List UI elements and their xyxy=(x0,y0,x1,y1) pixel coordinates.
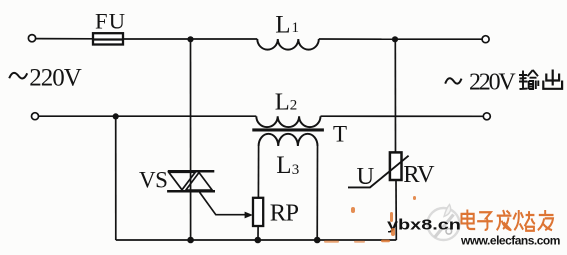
watermark CJK zi xyxy=(477,212,493,230)
wire RV branch vertical upper xyxy=(394,39,396,152)
svg-text:L: L xyxy=(275,88,290,115)
label CJK chu (output char 2) xyxy=(543,70,562,89)
svg-text:3: 3 xyxy=(292,162,300,178)
svg-text:L: L xyxy=(276,152,291,179)
triac VS top bar xyxy=(168,170,215,173)
node junction top-right (RV branch) xyxy=(392,36,398,42)
transformer core bar T xyxy=(252,128,324,131)
triac VS left triangle xyxy=(169,172,195,190)
label L1 xyxy=(275,11,299,38)
svg-text:RP: RP xyxy=(270,200,299,227)
wire RP to bottom rail xyxy=(257,226,259,240)
svg-text:www.elecfans.com: www.elecfans.com xyxy=(460,233,560,247)
wire triac branch vertical xyxy=(190,39,192,240)
triac VS bottom bar xyxy=(167,190,215,193)
inductor L3 (secondary) xyxy=(259,134,318,146)
node junction top-left (triac branch) xyxy=(187,36,193,42)
svg-text:T: T xyxy=(333,122,347,147)
svg-text:ybx8.cn: ybx8.cn xyxy=(387,216,461,233)
watermark CJK dian xyxy=(461,209,475,229)
svg-text:220V: 220V xyxy=(469,69,516,95)
varistor RV body xyxy=(390,152,402,180)
watermark logo circle xyxy=(428,205,460,241)
terminal left top xyxy=(28,35,35,42)
svg-text:U: U xyxy=(357,163,375,190)
wire top rail left segment xyxy=(36,38,93,40)
wire L1 to junction right xyxy=(319,38,395,40)
node bottom rail L3 xyxy=(314,237,321,244)
terminal left bottom xyxy=(32,113,39,120)
svg-text:2: 2 xyxy=(290,98,298,114)
watermark CJK shao xyxy=(513,210,535,231)
svg-text:220V: 220V xyxy=(29,64,82,91)
watermark CJK fa xyxy=(497,210,512,230)
triac VS right triangle xyxy=(186,173,212,191)
wire second rail left xyxy=(39,115,257,117)
wire triac gate xyxy=(200,192,246,214)
node bottom rail RP xyxy=(254,237,261,244)
node bottom rail triac xyxy=(187,237,194,244)
svg-text:1: 1 xyxy=(292,20,300,36)
watermark CJK you xyxy=(538,210,554,230)
varistor diagonal stroke xyxy=(348,156,409,188)
svg-text:FU: FU xyxy=(95,9,126,34)
label ~220V input xyxy=(9,64,82,91)
inductor L2 xyxy=(256,116,320,127)
wire left branch vertical xyxy=(115,116,117,240)
wire second rail right xyxy=(321,115,484,117)
potentiometer RP body xyxy=(253,198,263,226)
wire bottom rail xyxy=(116,239,397,241)
gate arrowhead xyxy=(245,212,253,219)
label ~ 220V output (latin part) xyxy=(445,69,516,95)
wire to terminal right top xyxy=(395,38,482,40)
wire L3 left leg to RP xyxy=(257,146,259,198)
terminal right top xyxy=(482,36,489,43)
label CJK shu (output char 1) xyxy=(519,70,538,89)
wire RV to bottom rail xyxy=(395,180,397,240)
label L3 xyxy=(276,152,299,179)
fuse FU xyxy=(93,33,123,44)
inductor L1 xyxy=(257,39,319,50)
svg-text:RV: RV xyxy=(403,161,435,188)
svg-text:L: L xyxy=(275,11,290,38)
node junction second rail (left branch) xyxy=(113,113,119,119)
wire junction to L1 xyxy=(191,38,258,40)
wire fuse to junction xyxy=(123,38,191,40)
svg-text:VS: VS xyxy=(139,167,167,192)
terminal right bottom xyxy=(483,113,490,120)
decorative orange specks xyxy=(324,196,416,243)
label L2 xyxy=(275,88,297,115)
wire L3 right leg to bottom rail xyxy=(316,146,318,240)
